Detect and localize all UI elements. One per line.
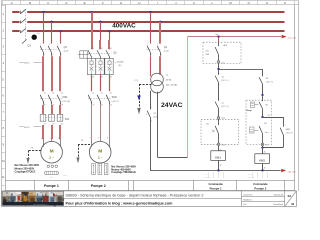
breaker Q2 xyxy=(40,44,69,56)
wire Ca to float box xyxy=(218,108,220,116)
annotation 400VAC cable xyxy=(115,61,125,67)
terminal out controller1 top xyxy=(217,61,225,65)
node control branch split xyxy=(217,63,219,70)
node L1-Q2 xyxy=(42,11,44,13)
svg-text:4G1,5: 4G1,5 xyxy=(24,127,30,129)
svg-text:Couplage TRIANGLE: Couplage TRIANGLE xyxy=(111,171,136,174)
contactor KM2 poles xyxy=(88,93,119,107)
ground shield T1 xyxy=(135,80,152,114)
node L1-Q3 xyxy=(90,11,92,13)
node L2-Q2 xyxy=(50,21,52,23)
controller pompe1 alarm box xyxy=(203,42,241,63)
disconnect switch Q1 xyxy=(20,9,31,48)
switch S1 xyxy=(146,107,158,123)
motor M1 xyxy=(41,138,63,163)
float switch box pompe1 xyxy=(201,119,239,144)
svg-text:( 02 - P ): ( 02 - P ) xyxy=(112,101,119,103)
folio arrow 01 top xyxy=(282,35,297,40)
wire T1 secondary 24V feed xyxy=(158,37,188,158)
svg-text:Rouge: Rouge xyxy=(246,110,251,112)
svg-text:N: N xyxy=(248,1,250,5)
level sensor box pompe2 xyxy=(246,95,272,145)
svg-text:( 02 - C ): ( 02 - C ) xyxy=(222,80,230,82)
svg-text:B: B xyxy=(29,1,31,5)
svg-text:Pompe 2: Pompe 2 xyxy=(91,184,106,188)
contact S4 level xyxy=(250,123,270,143)
wire S1 to rail xyxy=(150,118,152,171)
wire control rail common xyxy=(150,170,281,172)
label motor2 data xyxy=(111,165,136,174)
node KM2-rail xyxy=(261,169,263,171)
node 24VAC-AL6 xyxy=(217,35,219,37)
svg-text:Pompe 2: Pompe 2 xyxy=(254,187,266,191)
svg-text:K: K xyxy=(193,1,195,5)
wire Cb to Ca xyxy=(218,82,220,100)
wire into controller1 xyxy=(218,37,220,43)
svg-text:24VAC: 24VAC xyxy=(161,102,183,109)
label motor1 data xyxy=(15,164,40,173)
contact Ca xyxy=(215,102,229,109)
svg-text:P: P xyxy=(284,1,286,5)
Q1 handle dot xyxy=(32,33,40,40)
svg-text:S1: S1 xyxy=(154,113,156,115)
terminal level box out xyxy=(261,143,268,147)
wire to KM2 aux xyxy=(262,115,283,118)
socket icon xyxy=(78,51,88,58)
svg-text:5G2,5: 5G2,5 xyxy=(24,62,30,64)
crossref KM1 xyxy=(204,172,224,179)
svg-text:( 02 - F ): ( 02 - F ) xyxy=(266,81,273,83)
wire Q4 to T1 xyxy=(151,56,161,76)
svg-text:KM2: KM2 xyxy=(286,129,290,131)
label row xyxy=(5,180,295,190)
svg-text:Pa: Pa xyxy=(38,33,40,35)
contactor KM1 poles xyxy=(40,93,71,107)
svg-text:Net Vitesse 230-400V: Net Vitesse 230-400V xyxy=(15,164,40,167)
svg-text:on-off: on-off xyxy=(164,50,169,52)
svg-text:F: F xyxy=(102,1,104,5)
wire bus L3 400VAC xyxy=(12,30,19,32)
title block xyxy=(2,191,297,206)
cable label 4G1,5 xyxy=(20,127,42,130)
cable label 5G2,5 xyxy=(20,62,42,64)
svg-text:S2: S2 xyxy=(266,78,268,80)
node S2 out xyxy=(261,94,263,96)
svg-text:Modifié le :: Modifié le : xyxy=(244,199,254,201)
svg-text:KM2: KM2 xyxy=(259,158,265,162)
ground PE motor1 xyxy=(26,148,41,164)
contact KM2 aux xyxy=(280,117,293,148)
coil KM2 xyxy=(255,146,270,171)
wire split to column2 xyxy=(218,69,262,71)
node KM1-rail xyxy=(217,169,219,171)
photo strip xyxy=(2,192,64,207)
crossref KM2 xyxy=(248,172,268,179)
svg-text:A: A xyxy=(11,1,13,5)
thermal relay KF1 xyxy=(40,114,70,125)
svg-text:400VAC: 400VAC xyxy=(112,22,136,29)
svg-text:KM2: KM2 xyxy=(112,96,118,99)
wire KM1 to KF1 xyxy=(43,105,60,114)
breaker Q4 xyxy=(147,44,169,56)
ground PE motor2 xyxy=(76,140,90,163)
motor M2 xyxy=(89,137,111,163)
svg-text:KM1: KM1 xyxy=(63,96,69,99)
svg-text:S4: S4 xyxy=(264,123,266,125)
svg-text:N2: N2 xyxy=(266,104,268,106)
wire bus L1 400VAC xyxy=(12,11,19,13)
node L1-T1 xyxy=(149,11,151,13)
svg-text:( 01 - 8 ): ( 01 - 8 ) xyxy=(288,38,296,40)
svg-text:2011-11-06: 2011-11-06 xyxy=(274,195,283,197)
svg-text:Pompe 1: Pompe 1 xyxy=(44,184,59,188)
wire drops to Q4 xyxy=(151,12,161,43)
svg-text:3 ~: 3 ~ xyxy=(49,156,54,160)
svg-text:( 02 - C ): ( 02 - C ) xyxy=(222,106,230,108)
svg-text:E: E xyxy=(84,1,86,5)
node L3-Q3 xyxy=(108,30,110,32)
node L2-T1 xyxy=(159,21,161,23)
wire aux rejoin xyxy=(262,147,283,149)
svg-text:on-off: on-off xyxy=(64,50,69,52)
svg-text:KF1: KF1 xyxy=(65,118,70,121)
svg-text:S6B03 - Schéma électrique de b: S6B03 - Schéma électrique de base - dépa… xyxy=(66,194,204,198)
svg-text:( 02 - P ): ( 02 - P ) xyxy=(286,133,293,135)
svg-text:Dessiné le :: Dessiné le : xyxy=(244,195,254,197)
svg-text:KM1: KM1 xyxy=(215,155,221,159)
contact S2 xyxy=(259,69,273,88)
wire drops to Q2 xyxy=(44,12,61,43)
node level-branch xyxy=(261,116,263,118)
wire T1 secondary common xyxy=(150,91,152,110)
cable pump1 phases xyxy=(43,56,60,91)
svg-text:Couplage ETOILE: Couplage ETOILE xyxy=(15,171,36,174)
wire 24VAC to folio 01 xyxy=(188,36,281,38)
terminals motor1 xyxy=(45,165,67,178)
terminal float box1 out xyxy=(217,143,225,146)
node L2-Q3 xyxy=(99,21,101,23)
contact Cb interlock xyxy=(215,69,229,86)
svg-text:Cb: Cb xyxy=(222,76,224,78)
folio arrow 02 bottom xyxy=(281,169,296,174)
svg-text:Pompe 1: Pompe 1 xyxy=(210,187,222,191)
svg-text:Pour plus d'information le blo: Pour plus d'information le blog : www.e-… xyxy=(66,201,174,205)
svg-text:Moteur 230-400V: Moteur 230-400V xyxy=(15,167,35,170)
svg-text:( 02 - 8 ): ( 02 - 8 ) xyxy=(288,171,296,173)
svg-text:Net Vitesse 230-400V: Net Vitesse 230-400V xyxy=(111,165,136,168)
wire drops to Q3 xyxy=(92,12,110,49)
transformer T1 xyxy=(151,73,178,93)
svg-text:3 ~: 3 ~ xyxy=(98,156,103,160)
coil KM1 xyxy=(211,146,226,171)
svg-text:T1: T1 xyxy=(166,75,168,77)
terminals motor2 xyxy=(92,164,108,175)
svg-text:H: H xyxy=(138,1,140,5)
node L3-Q2 xyxy=(59,30,61,32)
wire S2 to node xyxy=(262,84,264,95)
svg-text:M: M xyxy=(98,148,102,154)
wire Q3 to KM2 xyxy=(92,75,110,92)
svg-text:( 02 - M ): ( 02 - M ) xyxy=(63,101,71,103)
node KM2 coil top xyxy=(261,146,263,148)
svg-text:Moteur 400-690V: Moteur 400-690V xyxy=(111,168,131,171)
motor breaker Q3 xyxy=(87,48,117,79)
svg-text:M: M xyxy=(50,148,54,154)
terminal float box1 in xyxy=(217,117,225,120)
wire bus L2 400VAC xyxy=(12,21,19,23)
cable motor1 xyxy=(43,125,60,139)
wire KM2 to motor2 xyxy=(92,105,110,139)
